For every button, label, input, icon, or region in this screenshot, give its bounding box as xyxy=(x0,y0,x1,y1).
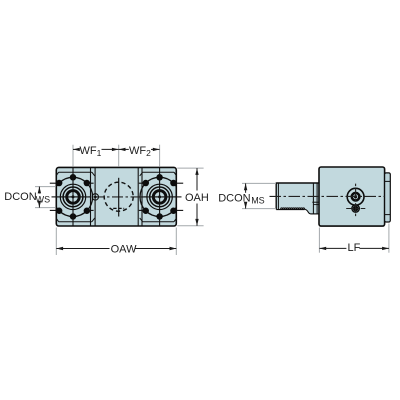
collar step line 2 xyxy=(313,204,318,206)
OAH dimension line xyxy=(196,168,198,190)
horizontal centerline solid in flange columns xyxy=(57,196,91,198)
screw small xyxy=(353,206,359,212)
WF1 arrow left xyxy=(73,148,80,151)
DCON WS extension lines xyxy=(35,187,56,208)
bolts right flange xyxy=(143,174,177,220)
LF dimension line xyxy=(319,247,346,249)
bolt tick lines xyxy=(50,183,183,210)
DCON MS dimension arrows xyxy=(245,183,247,192)
svg-text:WF2: WF2 xyxy=(129,145,151,158)
bolts left flange xyxy=(56,174,90,220)
coupling rings right flange xyxy=(147,184,172,209)
collar line 2 xyxy=(316,183,318,214)
section line A xyxy=(90,168,92,226)
shank fill xyxy=(276,183,319,214)
OAW dimension line xyxy=(56,248,109,250)
flange plate edges left xyxy=(57,172,95,222)
section line C xyxy=(137,168,139,226)
svg-text:OAH: OAH xyxy=(185,192,209,204)
right end plate xyxy=(385,173,391,222)
section line B xyxy=(94,168,96,226)
svg-text:DCON: DCON xyxy=(218,192,250,204)
body outline xyxy=(56,167,176,226)
svg-text:DCON: DCON xyxy=(4,191,36,203)
right body xyxy=(319,167,385,226)
svg-text:WS: WS xyxy=(36,195,51,205)
coupling rings left flange xyxy=(60,184,85,209)
screws vertical centerline xyxy=(355,184,357,217)
dashed chord xyxy=(113,207,124,209)
svg-text:MS: MS xyxy=(251,196,265,206)
screw big xyxy=(347,188,364,205)
thread zigzag xyxy=(276,209,304,211)
flange bolt circles (clipped) xyxy=(53,177,179,216)
WF2 arrow right xyxy=(153,148,160,151)
centerline vertical left flange xyxy=(72,168,74,226)
svg-text:LF: LF xyxy=(348,242,361,254)
main horizontal centerline xyxy=(57,196,177,198)
OAH extension lines xyxy=(177,168,203,226)
axis centerline xyxy=(270,195,385,197)
shank top edge xyxy=(276,182,319,184)
DCON MS extension lines xyxy=(242,183,276,208)
svg-text:OAW: OAW xyxy=(111,243,137,255)
collar line 1 xyxy=(312,183,314,214)
centerline vertical right flange xyxy=(159,168,161,226)
WF extension lines xyxy=(73,145,160,167)
shank left face xyxy=(275,183,277,210)
collar step line 1 xyxy=(312,201,319,203)
WF1 arrow right xyxy=(112,148,119,151)
dashed circle vertical centerline xyxy=(118,178,120,217)
LF extension lines xyxy=(319,224,389,253)
small hole xyxy=(92,194,98,200)
WF1 dimension line xyxy=(73,148,160,150)
relief groove bottom xyxy=(311,213,319,215)
OAW extension lines xyxy=(56,228,176,256)
thread transition curve to relief groove xyxy=(304,209,311,214)
small screw horizontal centerline xyxy=(346,208,365,210)
section line D xyxy=(141,168,143,226)
dashed circle (machine interface) xyxy=(104,182,133,211)
WF2 arrow left xyxy=(119,148,126,151)
svg-text:WF1: WF1 xyxy=(80,145,102,158)
shank left face inner line xyxy=(277,183,279,209)
flange plate edges right xyxy=(140,172,176,222)
DCON WS dimension arrows xyxy=(38,187,40,194)
